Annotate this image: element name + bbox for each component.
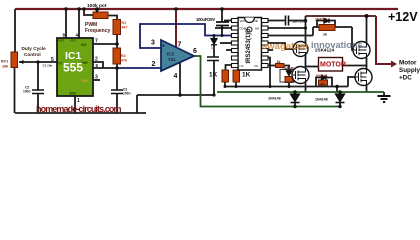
svg-text:100n: 100n [123, 92, 131, 96]
svg-text:100k pot: 100k pot [87, 3, 107, 9]
svg-text:DIS: DIS [81, 43, 86, 47]
svg-text:VCC: VCC [240, 19, 246, 23]
svg-text:1k: 1k [277, 60, 281, 64]
svg-text:1k: 1k [211, 46, 215, 50]
svg-text:47k: 47k [121, 59, 127, 63]
svg-text:100uF/25V: 100uF/25V [196, 17, 215, 22]
svg-text:2: 2 [152, 61, 156, 68]
svg-text:1N4148: 1N4148 [315, 18, 327, 22]
svg-text:IRS2453(1)D: IRS2453(1)D [246, 28, 252, 64]
svg-text:Supply: Supply [399, 67, 420, 74]
svg-text:10k: 10k [2, 65, 9, 69]
svg-text:3: 3 [95, 75, 98, 81]
svg-text:Control: Control [24, 52, 41, 57]
svg-text:VS: VS [254, 64, 258, 68]
svg-text:+12V: +12V [388, 10, 418, 24]
svg-text:1k: 1k [323, 33, 327, 37]
svg-text:1K: 1K [242, 72, 251, 79]
svg-text:-: - [162, 67, 164, 73]
svg-text:swagatam: swagatam [262, 41, 308, 52]
svg-text:RST: RST [59, 39, 65, 43]
svg-text:OUT: OUT [82, 79, 89, 83]
svg-text:Motor: Motor [399, 60, 417, 67]
svg-text:1uF/250v: 1uF/250v [292, 20, 307, 24]
svg-text:GND: GND [69, 92, 77, 96]
svg-text:+: + [162, 44, 165, 50]
svg-text:homemade-circuits.com: homemade-circuits.com [36, 104, 122, 114]
svg-text:IC2: IC2 [167, 52, 175, 57]
svg-text:VCC: VCC [70, 39, 76, 43]
svg-text:741: 741 [168, 57, 176, 62]
svg-text:1K: 1K [209, 72, 218, 79]
svg-text:C1 10n: C1 10n [43, 64, 53, 68]
svg-text:100n: 100n [23, 90, 31, 94]
svg-text:2SK4124: 2SK4124 [315, 48, 335, 53]
svg-text:3: 3 [151, 40, 155, 47]
svg-text:6: 6 [193, 48, 197, 55]
svg-text:4: 4 [174, 73, 178, 80]
svg-text:1N4148: 1N4148 [315, 98, 328, 102]
svg-text:RV1: RV1 [1, 60, 8, 64]
svg-text:1k: 1k [321, 82, 325, 86]
svg-text:THR: THR [81, 61, 88, 65]
svg-text:7: 7 [178, 42, 182, 49]
svg-text:5: 5 [51, 57, 54, 63]
svg-text:Frequency: Frequency [85, 28, 111, 34]
svg-text:2: 2 [95, 57, 98, 63]
svg-text:R2: R2 [121, 54, 126, 58]
svg-text:VB: VB [254, 19, 258, 23]
svg-text:1N4148: 1N4148 [316, 74, 328, 78]
svg-text:Duty Cycle: Duty Cycle [22, 46, 47, 51]
svg-text:R1: R1 [122, 21, 127, 25]
svg-text:1N4148: 1N4148 [268, 97, 281, 101]
svg-text:+DC: +DC [399, 75, 412, 82]
svg-text:7: 7 [95, 39, 98, 45]
svg-text:1N4148: 1N4148 [282, 66, 294, 70]
svg-text:4k7: 4k7 [122, 26, 128, 30]
svg-text:MOTOR: MOTOR [320, 62, 346, 69]
